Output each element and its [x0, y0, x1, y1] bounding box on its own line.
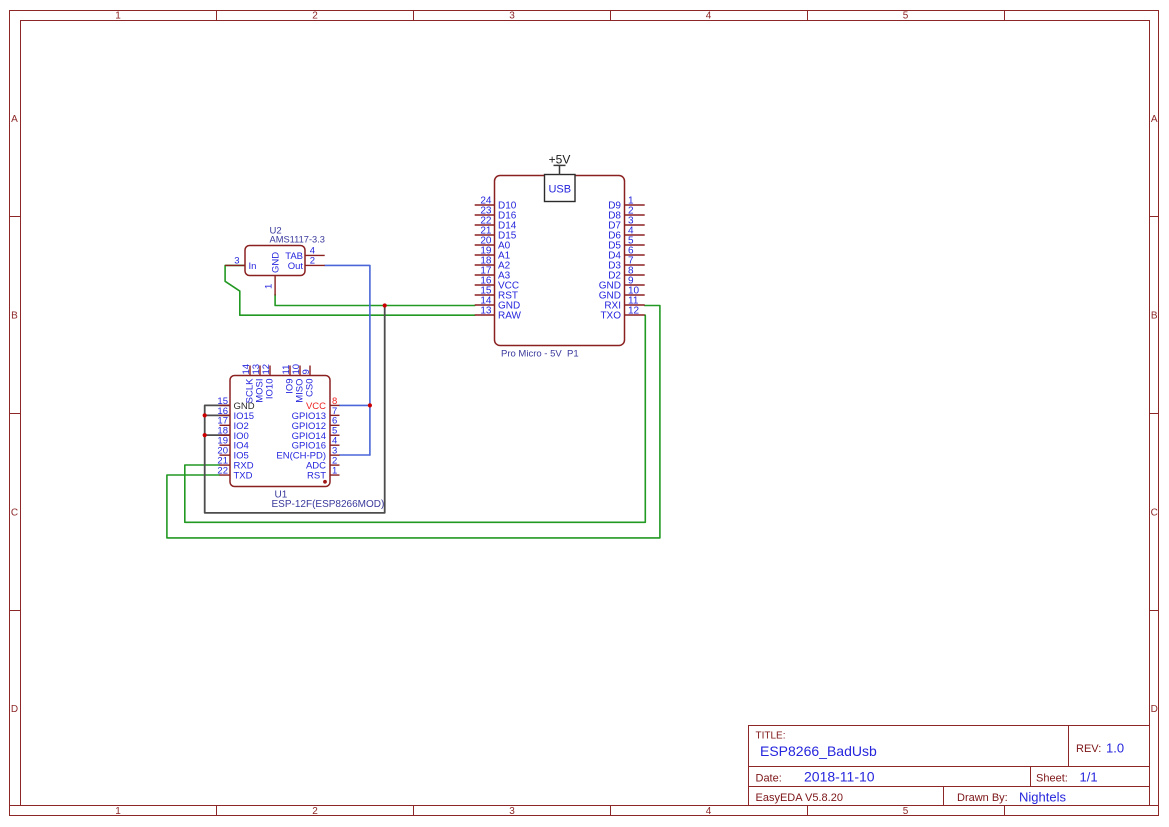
svg-text:9: 9 — [301, 369, 312, 374]
P1 pin 24 D10 — [475, 195, 517, 211]
svg-text:ESP8266_BadUsb: ESP8266_BadUsb — [760, 743, 877, 759]
junction dot ESP pin18 — [203, 433, 207, 437]
frame column numbers top — [115, 11, 909, 22]
svg-text:EasyEDA V5.8.20: EasyEDA V5.8.20 — [756, 792, 843, 804]
junction dot GND black/green — [383, 303, 387, 307]
U1 pin 22 TXD left — [217, 465, 252, 481]
P1 pin 5 D5 — [608, 235, 644, 251]
U1 pin 16 IO15 left — [217, 406, 254, 422]
P1 pin 13 RAW — [475, 305, 522, 321]
P1 pin 14 GND — [475, 295, 521, 311]
title block labels — [756, 731, 1102, 805]
U1 pin 17 IO2 left — [217, 416, 248, 432]
svg-text:AMS1117-3.3: AMS1117-3.3 — [270, 235, 325, 245]
U1 pin 2 ADC right — [306, 456, 340, 472]
wire: GND black net (ESP GND pin15 loop to junction) — [205, 306, 385, 513]
svg-text:Drawn By:: Drawn By: — [957, 792, 1008, 804]
module U1 ESP-12F body — [230, 376, 330, 487]
svg-text:+5V: +5V — [549, 152, 571, 166]
P1 pin 10 GND — [599, 285, 645, 301]
svg-text:Sheet:: Sheet: — [1036, 772, 1068, 784]
svg-text:RAW: RAW — [498, 311, 522, 322]
junction dot ESP pin16 — [203, 413, 207, 417]
P1 pin 17 A3 — [475, 265, 511, 281]
P1 pin 7 D3 — [608, 255, 644, 271]
svg-text:D: D — [11, 704, 18, 715]
svg-text:1: 1 — [115, 11, 121, 22]
wire: ESP RXD to P1 TXO green — [185, 315, 646, 522]
P1 pin 4 D6 — [608, 225, 644, 241]
svg-text:TXD: TXD — [234, 471, 253, 482]
U2 pin 1 GND bottom — [263, 252, 281, 296]
P1 pin 19 A1 — [475, 245, 511, 261]
U1 pin 19 IO4 left — [217, 436, 248, 452]
P1 pin 1 D9 — [608, 195, 644, 211]
svg-text:4: 4 — [706, 11, 712, 22]
svg-text:5: 5 — [903, 806, 909, 817]
P1 pin 8 D2 — [608, 265, 644, 281]
U1 pin 12 IO10 top — [261, 364, 276, 399]
svg-text:RST: RST — [307, 471, 326, 482]
svg-text:C: C — [1151, 508, 1158, 519]
U1 pin 8 VCC right — [306, 396, 340, 412]
P1 pin 21 D15 — [475, 225, 517, 241]
U1 pin 5 GPIO14 right — [292, 426, 340, 442]
svg-text:D: D — [1151, 704, 1158, 715]
svg-text:Date:: Date: — [756, 772, 782, 784]
regulator U2 AMS1117-3.3 body — [245, 246, 305, 276]
P1 pin 2 D8 — [608, 205, 644, 221]
svg-text:13: 13 — [480, 305, 492, 316]
U1 pin 21 RXD left — [217, 456, 253, 472]
svg-text:2: 2 — [312, 11, 318, 22]
U1 polarity dot — [323, 480, 327, 484]
svg-text:Out: Out — [288, 261, 304, 272]
svg-text:12: 12 — [261, 364, 272, 375]
svg-text:B: B — [1151, 311, 1158, 322]
svg-text:A: A — [11, 114, 18, 125]
P1 pin 11 RXI — [604, 295, 644, 311]
junction dot blue net at ESP VCC — [368, 403, 372, 407]
svg-text:1: 1 — [332, 465, 337, 476]
U1 pin 11 IO9 top — [281, 365, 296, 394]
frame row letters right — [1151, 114, 1158, 715]
P1 pin 16 VCC — [475, 275, 519, 291]
P1 pin 23 D16 — [475, 205, 517, 221]
U1 pin 10 MISO top — [291, 364, 306, 403]
svg-text:2: 2 — [310, 256, 315, 267]
svg-text:3: 3 — [509, 806, 515, 817]
USB connector box on P1 — [545, 175, 576, 202]
P1 pin 22 D14 — [475, 215, 517, 231]
U1 pin 1 RST right — [307, 465, 340, 481]
P1 pin 18 A2 — [475, 255, 511, 271]
U2 pin 2 Out — [288, 256, 325, 272]
connector P1 Pro Micro - 5V body — [495, 176, 625, 346]
P1 pin 3 D7 — [608, 215, 644, 231]
title block — [749, 726, 1150, 806]
svg-text:TITLE:: TITLE: — [756, 731, 786, 742]
svg-text:CS0: CS0 — [305, 379, 316, 397]
svg-text:IO10: IO10 — [265, 379, 276, 400]
svg-text:C: C — [11, 508, 18, 519]
svg-text:REV:: REV: — [1076, 743, 1101, 755]
P1 pin 15 RST — [475, 285, 518, 301]
wire: black stub ESP IO15 pin16 to GND — [205, 414, 230, 416]
wire: ESP TXD to P1 RXI green — [167, 306, 660, 538]
svg-text:Pro Micro - 5V P1: Pro Micro - 5V P1 — [501, 349, 579, 360]
P1 pin 6 D4 — [608, 245, 644, 261]
U1 pin 9 CS0 top — [301, 366, 316, 397]
svg-text:12: 12 — [628, 305, 640, 316]
svg-text:GND: GND — [271, 252, 282, 273]
U2 pin 4 TAB — [285, 246, 324, 262]
U2 pin 3 In — [225, 256, 256, 272]
svg-text:4: 4 — [706, 806, 712, 817]
svg-text:1: 1 — [263, 284, 274, 289]
svg-text:3: 3 — [234, 256, 239, 267]
wire: black stub ESP IO0 pin18 to GND — [205, 434, 230, 436]
svg-text:ESP-12F(ESP8266MOD): ESP-12F(ESP8266MOD) — [272, 499, 385, 510]
svg-text:TXO: TXO — [600, 311, 621, 322]
P1 pin 12 TXO — [600, 305, 644, 321]
power net flag +5V — [549, 152, 571, 175]
U1 pin 18 IO0 left — [217, 426, 248, 442]
U1 pin 14 SCLK top — [241, 364, 256, 403]
U1 pin 20 IO5 left — [217, 446, 248, 462]
svg-text:1: 1 — [115, 806, 121, 817]
wire: +5V RAW net green (U2 In to P1 RAW pin13) — [225, 265, 475, 315]
svg-text:2018-11-10: 2018-11-10 — [804, 769, 875, 785]
frame column numbers bottom — [115, 806, 909, 817]
svg-text:Nightels: Nightels — [1019, 790, 1066, 805]
P1 pin 20 A0 — [475, 235, 511, 251]
svg-text:A: A — [1151, 114, 1158, 125]
title block values — [760, 741, 1124, 805]
U1 pin 7 GPIO13 right — [292, 406, 340, 422]
wire: GND net green (U2 GND pin1 to P1 GND pin14) — [275, 295, 475, 306]
U1 pin 4 GPIO16 right — [292, 436, 340, 452]
svg-text:5: 5 — [903, 11, 909, 22]
svg-text:USB: USB — [548, 183, 571, 195]
frame row letters left — [11, 114, 18, 715]
P1 pin 9 GND — [599, 275, 645, 291]
svg-text:1/1: 1/1 — [1080, 770, 1098, 785]
wire: 3.3V blue net (U2 Out to ESP VCC and EN) — [325, 265, 370, 455]
U1 pin 3 EN(CH-PD) right — [276, 446, 339, 462]
U1 pin 15 GND left — [217, 396, 254, 412]
svg-text:3: 3 — [509, 11, 515, 22]
U1 pin 13 MOSI top — [251, 364, 266, 403]
svg-text:In: In — [249, 261, 257, 272]
svg-text:22: 22 — [217, 465, 228, 476]
U1 pin 6 GPIO12 right — [292, 416, 340, 432]
svg-text:2: 2 — [312, 806, 318, 817]
svg-text:B: B — [11, 311, 18, 322]
svg-text:1.0: 1.0 — [1106, 741, 1124, 756]
